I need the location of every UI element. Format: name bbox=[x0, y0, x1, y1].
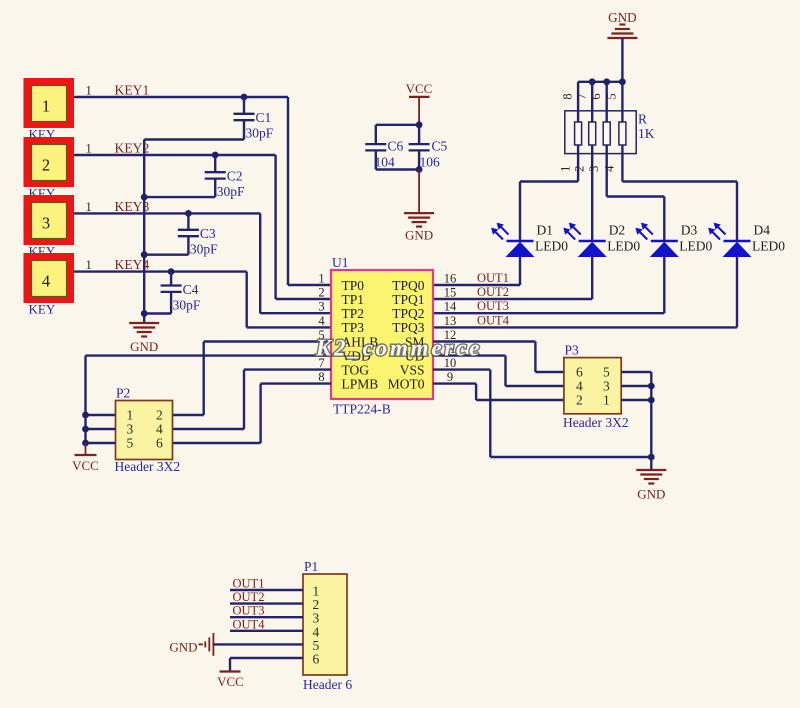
svg-text:104: 104 bbox=[375, 155, 396, 170]
svg-text:30pF: 30pF bbox=[217, 184, 245, 199]
wire P3 pin3 to gnd rail bbox=[621, 385, 651, 387]
svg-text:4: 4 bbox=[156, 422, 163, 437]
svg-text:OUT3: OUT3 bbox=[233, 604, 265, 618]
key button S2 (KEY) bbox=[24, 137, 92, 201]
svg-text:LED0: LED0 bbox=[607, 239, 640, 254]
connector P1 Header 6 bbox=[303, 559, 352, 692]
capacitor C2 30pF bbox=[144, 155, 245, 199]
wire R1 to D1 bbox=[520, 145, 578, 241]
wire P3 pin1 to gnd rail bbox=[621, 399, 651, 401]
ground GND (decoupling) bbox=[404, 213, 434, 242]
wire U1 pin8 LPMB to P2 pin6 bbox=[173, 384, 332, 443]
svg-text:8: 8 bbox=[560, 93, 574, 99]
net label OUT3 (P1) bbox=[233, 604, 265, 618]
wire R3 to D3 bbox=[607, 145, 665, 241]
junction P3 pin1 bbox=[648, 397, 655, 404]
R pin number 7 bbox=[574, 93, 588, 99]
svg-text:4: 4 bbox=[576, 379, 583, 394]
svg-text:P3: P3 bbox=[565, 343, 580, 358]
wire P1 pin3 OUT3 bbox=[230, 616, 303, 618]
wire U1 pin11 UD to P3 pin4 bbox=[433, 356, 564, 386]
net label OUT2 bbox=[477, 285, 509, 299]
junction KEY4 / C4 bbox=[168, 268, 175, 275]
svg-text:OUT2: OUT2 bbox=[233, 590, 265, 604]
wire C5 to ground bbox=[418, 170, 420, 214]
svg-text:30pF: 30pF bbox=[190, 242, 218, 257]
svg-text:GND: GND bbox=[405, 228, 433, 243]
capacitor C5 106 bbox=[409, 139, 448, 170]
svg-text:9: 9 bbox=[447, 370, 453, 384]
wire P1 pin2 OUT2 bbox=[230, 602, 303, 604]
svg-text:TTP224-B: TTP224-B bbox=[333, 402, 391, 417]
svg-text:Header 3X2: Header 3X2 bbox=[563, 415, 629, 430]
svg-text:Header 6: Header 6 bbox=[303, 677, 352, 692]
svg-text:C4: C4 bbox=[183, 282, 199, 297]
svg-text:1: 1 bbox=[86, 142, 92, 156]
svg-text:2: 2 bbox=[318, 286, 324, 300]
key button S1 (KEY) bbox=[24, 78, 92, 142]
ground GND (P3) bbox=[636, 470, 666, 502]
net label KEY4 bbox=[115, 257, 150, 272]
net label OUT4 (P1) bbox=[233, 617, 266, 631]
wire VCC node bbox=[418, 125, 420, 170]
svg-text:1: 1 bbox=[318, 272, 324, 286]
junction KEY2 / C2 bbox=[212, 152, 219, 159]
svg-text:OUT4: OUT4 bbox=[233, 617, 266, 631]
resistor element R4 bbox=[619, 82, 626, 145]
svg-text:VSS: VSS bbox=[400, 362, 425, 377]
svg-text:MOT0: MOT0 bbox=[388, 376, 425, 391]
svg-text:D2: D2 bbox=[609, 223, 626, 238]
svg-text:GND: GND bbox=[637, 487, 665, 502]
svg-text:D3: D3 bbox=[681, 223, 698, 238]
R pin number 8 bbox=[560, 93, 574, 99]
resistor network R 1K (body) bbox=[565, 111, 655, 154]
svg-text:VCC: VCC bbox=[406, 81, 433, 96]
junction R pin5 bbox=[619, 78, 626, 85]
svg-text:C6: C6 bbox=[388, 139, 404, 154]
wire R2 to D2 bbox=[591, 145, 593, 241]
svg-text:OUT4: OUT4 bbox=[477, 313, 510, 327]
wire R4 to D4 bbox=[622, 145, 737, 241]
svg-text:TPQ3: TPQ3 bbox=[392, 320, 425, 335]
svg-text:4: 4 bbox=[603, 165, 617, 172]
capacitor C4 30pF bbox=[144, 272, 201, 314]
svg-text:LED0: LED0 bbox=[679, 239, 712, 254]
svg-text:2: 2 bbox=[156, 408, 163, 423]
svg-text:OUT1: OUT1 bbox=[233, 577, 265, 591]
key button S3 (KEY) bbox=[24, 195, 92, 259]
power VCC (top) bbox=[406, 81, 433, 125]
junction C3/rail bbox=[141, 251, 148, 258]
wire P3 gnd rail bbox=[650, 372, 652, 470]
svg-text:1: 1 bbox=[558, 166, 572, 172]
svg-text:TPQ2: TPQ2 bbox=[392, 306, 424, 321]
svg-text:Header 3X2: Header 3X2 bbox=[115, 459, 181, 474]
wire P2 pin1 stub bbox=[86, 414, 116, 416]
wire P2 pin3 stub bbox=[86, 428, 116, 430]
svg-text:6: 6 bbox=[576, 365, 583, 380]
svg-text:KEY: KEY bbox=[29, 302, 56, 317]
LED D3 LED0 bbox=[635, 223, 712, 258]
svg-text:6: 6 bbox=[313, 652, 320, 667]
wire U1 pin7 TOG to P2 pin4 bbox=[173, 370, 332, 429]
capacitor C3 30pF bbox=[144, 213, 218, 256]
svg-text:C2: C2 bbox=[227, 169, 243, 184]
R pin number 2 bbox=[572, 166, 586, 172]
svg-text:3: 3 bbox=[318, 300, 324, 314]
ground GND (keys) bbox=[129, 323, 159, 354]
svg-text:TPQ1: TPQ1 bbox=[392, 292, 424, 307]
LED D4 LED0 bbox=[708, 223, 785, 258]
svg-text:4: 4 bbox=[42, 272, 50, 291]
svg-text:16: 16 bbox=[444, 272, 457, 286]
svg-text:VCC: VCC bbox=[217, 674, 244, 689]
wire ground rail (C1-C4) bbox=[143, 140, 145, 324]
svg-text:1: 1 bbox=[603, 393, 610, 408]
wire P1 pin4 OUT4 bbox=[230, 630, 303, 632]
R pin number 5 bbox=[605, 93, 619, 99]
svg-text:13: 13 bbox=[444, 314, 457, 328]
key button S4 (KEY) bbox=[24, 253, 92, 317]
wire U1 pin12 SM to P3 pin6 bbox=[433, 342, 564, 373]
svg-text:GND: GND bbox=[130, 339, 158, 354]
svg-text:1: 1 bbox=[127, 408, 134, 423]
wire U1 pin9 MOT0 to P3 pin2 bbox=[433, 384, 564, 400]
svg-text:LED0: LED0 bbox=[535, 239, 568, 254]
net label OUT4 bbox=[477, 313, 510, 327]
svg-text:TP3: TP3 bbox=[342, 320, 365, 335]
junction R pin7 bbox=[589, 78, 596, 85]
svg-text:D4: D4 bbox=[754, 223, 771, 238]
svg-text:2: 2 bbox=[42, 156, 50, 175]
op-amp/IC U1 TTP224-B bbox=[318, 255, 457, 417]
svg-text:LPMB: LPMB bbox=[342, 376, 379, 391]
svg-text:OUT2: OUT2 bbox=[477, 285, 509, 299]
wire KEY1 to U1 pin 1 bbox=[74, 97, 331, 285]
svg-text:2: 2 bbox=[576, 393, 583, 408]
power VCC (P1) bbox=[217, 672, 244, 690]
wire KEY2 to U1 pin 2 bbox=[74, 155, 331, 299]
svg-text:15: 15 bbox=[444, 286, 457, 300]
svg-text:OUT1: OUT1 bbox=[477, 271, 509, 285]
svg-text:7: 7 bbox=[574, 93, 588, 99]
svg-text:3: 3 bbox=[127, 422, 134, 437]
svg-text:30pF: 30pF bbox=[246, 126, 274, 141]
LED D2 LED0 bbox=[563, 223, 640, 258]
svg-text:P1: P1 bbox=[304, 559, 318, 574]
wire GND to R common bbox=[621, 38, 623, 82]
svg-text:GND: GND bbox=[608, 10, 637, 25]
resistor element R1 bbox=[575, 82, 582, 145]
junction P3 pin3 bbox=[648, 383, 655, 390]
svg-text:TOG: TOG bbox=[342, 362, 370, 377]
ground GND (resistor network) bbox=[607, 10, 637, 38]
wire U1 pin10 VSS to ground bbox=[433, 370, 651, 457]
wire OUT1 (U1 pin 16 to D1) bbox=[433, 257, 520, 285]
wire P1 pin6 to VCC bbox=[230, 658, 303, 672]
junction C4/rail bbox=[141, 310, 148, 317]
net label OUT3 bbox=[477, 299, 509, 313]
svg-text:5: 5 bbox=[127, 436, 134, 451]
svg-text:5: 5 bbox=[603, 365, 610, 380]
junction C5/C6 bottom bbox=[416, 166, 423, 173]
junction P2 pin1/VCC rail bbox=[82, 412, 89, 419]
svg-text:GND: GND bbox=[169, 640, 197, 655]
capacitor C1 30pF bbox=[144, 97, 274, 141]
R pin number 1 bbox=[558, 166, 572, 172]
junction VSS/gnd rail bbox=[648, 454, 655, 461]
svg-text:R: R bbox=[638, 112, 647, 127]
net label OUT1 bbox=[477, 271, 509, 285]
svg-text:TPQ0: TPQ0 bbox=[392, 278, 425, 293]
svg-text:C3: C3 bbox=[200, 226, 216, 241]
watermark K2_commerce bbox=[315, 336, 482, 361]
net label KEY3 bbox=[115, 199, 150, 214]
net label KEY1 bbox=[115, 83, 150, 98]
svg-text:4: 4 bbox=[318, 314, 325, 328]
wire P1 pin1 OUT1 bbox=[230, 589, 303, 591]
ground GND (P1 pin5) bbox=[169, 633, 213, 656]
svg-text:VCC: VCC bbox=[72, 458, 99, 473]
junction R pin6 bbox=[603, 78, 610, 85]
wire P1 pin5 to GND bbox=[213, 643, 303, 645]
capacitor C6 104 bbox=[365, 125, 419, 170]
R pin number 6 bbox=[589, 93, 603, 99]
svg-text:D1: D1 bbox=[537, 223, 554, 238]
svg-text:1: 1 bbox=[86, 84, 92, 98]
svg-text:TP1: TP1 bbox=[342, 292, 365, 307]
svg-text:TP2: TP2 bbox=[342, 306, 365, 321]
wire OUT4 (U1 pin 13 to D4) bbox=[433, 257, 737, 327]
net label KEY2 bbox=[115, 141, 150, 156]
wire OUT3 (U1 pin 14 to D3) bbox=[433, 257, 664, 313]
svg-text:3: 3 bbox=[42, 214, 50, 233]
svg-text:14: 14 bbox=[444, 300, 457, 314]
wire KEY4 to U1 pin 4 bbox=[74, 272, 331, 328]
svg-text:C5: C5 bbox=[432, 139, 448, 154]
svg-text:3: 3 bbox=[587, 166, 601, 172]
junction KEY3 / C3 bbox=[185, 210, 192, 217]
R pin number 3 bbox=[587, 166, 601, 172]
junction VCC/C6 top bbox=[416, 121, 423, 128]
svg-text:U1: U1 bbox=[332, 255, 349, 270]
wire OUT2 (U1 pin 15 to D2) bbox=[433, 257, 592, 299]
svg-text:30pF: 30pF bbox=[173, 297, 201, 312]
svg-text:1K: 1K bbox=[638, 126, 655, 141]
svg-text:1: 1 bbox=[86, 200, 92, 214]
junction P2 pin5/VCC rail bbox=[82, 440, 89, 447]
junction C2/rail bbox=[141, 194, 148, 201]
wire KEY3 to U1 pin 3 bbox=[74, 213, 331, 313]
power VCC (P2) bbox=[72, 443, 99, 473]
resistor element R2 bbox=[589, 82, 596, 145]
wire P2 pin5 stub bbox=[86, 442, 116, 444]
resistor element R3 bbox=[603, 82, 610, 145]
svg-text:K2_commerce: K2_commerce bbox=[315, 336, 482, 361]
svg-text:2: 2 bbox=[572, 166, 586, 172]
svg-text:LED0: LED0 bbox=[752, 239, 785, 254]
net label OUT2 (P1) bbox=[233, 590, 265, 604]
svg-text:6: 6 bbox=[156, 436, 163, 451]
LED D1 LED0 bbox=[491, 223, 568, 258]
svg-text:8: 8 bbox=[318, 370, 324, 384]
svg-text:KEY1: KEY1 bbox=[115, 83, 150, 98]
svg-text:OUT3: OUT3 bbox=[477, 299, 509, 313]
svg-text:P2: P2 bbox=[116, 386, 130, 401]
wire R common rail bbox=[578, 81, 622, 83]
svg-text:C1: C1 bbox=[256, 110, 272, 125]
wire P3 pin5 to gnd rail bbox=[621, 371, 651, 373]
junction P2 pin3/VCC rail bbox=[82, 426, 89, 433]
svg-text:106: 106 bbox=[420, 155, 441, 170]
wire U1 pin5 AHLB to P2 pin2 bbox=[173, 342, 332, 416]
connector P3 Header 3X2 bbox=[563, 343, 629, 431]
net label OUT1 (P1) bbox=[233, 577, 265, 591]
svg-text:TP0: TP0 bbox=[342, 278, 365, 293]
R pin number 4 bbox=[603, 165, 617, 172]
wire U1 pin6 VDD to VCC rail bbox=[86, 356, 332, 443]
connector P2 Header 3X2 bbox=[115, 386, 181, 475]
junction KEY1 / C1 bbox=[241, 94, 248, 101]
svg-text:1: 1 bbox=[86, 258, 92, 272]
svg-text:1: 1 bbox=[42, 97, 50, 116]
svg-text:3: 3 bbox=[603, 379, 610, 394]
